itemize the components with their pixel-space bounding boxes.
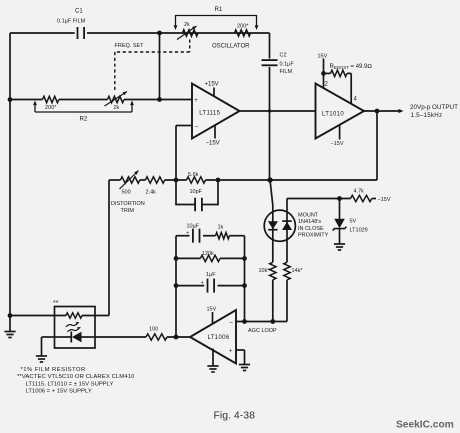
dual diode circle 1N4148	[264, 210, 295, 241]
node: pin2 / Rboost	[321, 71, 326, 76]
svg-text:C2: C2	[280, 53, 287, 59]
svg-text:+: +	[194, 98, 198, 104]
svg-text:1N4148’s: 1N4148’s	[298, 219, 321, 225]
svg-text:−15V: −15V	[331, 141, 344, 147]
label: R1	[215, 7, 223, 13]
svg-text:4.7k: 4.7k	[354, 189, 365, 195]
svg-text:AGC LOOP: AGC LOOP	[248, 328, 277, 334]
svg-text:R2: R2	[80, 117, 88, 123]
svg-text:120k: 120k	[202, 251, 214, 257]
svg-text:**: **	[53, 300, 59, 307]
svg-text:−: −	[195, 123, 199, 130]
svg-text:MOUNT: MOUNT	[298, 212, 319, 218]
label: AGC LOOP	[248, 328, 277, 334]
label: + (10uF)	[186, 230, 189, 236]
svg-text:2.4k: 2.4k	[146, 190, 157, 196]
svg-text:RBOOST = 49.9Ω: RBOOST = 49.9Ω	[330, 64, 373, 70]
svg-text:DISTORTION: DISTORTION	[111, 201, 145, 207]
wire: 2.4k to 5.6k node	[140, 179, 187, 181]
svg-text:1.5–15kHz: 1.5–15kHz	[411, 112, 443, 119]
wire: photoresistor row	[10, 315, 109, 317]
label: Rboost = 49.9 ohm	[330, 64, 373, 70]
svg-text:0.1µF FILM: 0.1µF FILM	[57, 19, 86, 25]
opto-coupler box VTL5C10	[55, 307, 96, 349]
label: 120k	[202, 251, 214, 257]
label: 20Vp-p OUTPUT	[410, 104, 458, 111]
svg-text:15V: 15V	[318, 54, 328, 60]
resistor 10k*	[270, 262, 276, 280]
ground: LED ground	[36, 356, 47, 362]
svg-text:+: +	[186, 230, 189, 236]
label: 5.6k	[188, 172, 199, 178]
watermark: SeekIC.com	[396, 419, 454, 430]
wire: LED left lead	[42, 337, 59, 356]
pin: LT1006 15V	[207, 307, 217, 325]
svg-text:1µF: 1µF	[206, 272, 216, 278]
light arrows	[66, 322, 81, 332]
wire: 1uF row	[176, 285, 245, 287]
svg-text:2k: 2k	[184, 22, 190, 28]
wire: LT1010 output	[364, 109, 404, 113]
resistor 5.6k	[187, 177, 206, 183]
pin: LT1115 V- -15V	[206, 125, 220, 147]
resistor 200* (R2 series)	[43, 96, 59, 102]
svg-text:LT1006: LT1006	[208, 335, 230, 341]
wire: left AGC vertical	[175, 236, 177, 337]
label: ** (box)	[53, 300, 59, 307]
pin: LT1115 V+ +15V	[205, 82, 219, 97]
resistor 1k	[216, 233, 230, 239]
svg-text:5.6k: 5.6k	[188, 172, 199, 178]
resistor 120k	[200, 255, 220, 261]
svg-text:TRIM: TRIM	[121, 208, 135, 214]
svg-text:0.1µF: 0.1µF	[280, 62, 295, 68]
label: DISTORTION TRIM	[111, 201, 145, 214]
capacitor 10uF	[193, 229, 200, 243]
label: C2 value	[280, 62, 295, 68]
svg-text:−: −	[229, 319, 233, 326]
node: 1uF right	[242, 283, 247, 288]
wire: feedback row right	[206, 179, 378, 181]
node: output node	[375, 109, 380, 114]
label: 10pF	[190, 189, 203, 195]
svg-text:15V: 15V	[207, 307, 217, 313]
wire: C2 branch lower (crosses output line)	[269, 67, 271, 180]
node: feedback / C2 / diode junction	[267, 177, 272, 182]
photoresistor element	[66, 313, 82, 318]
resistor 2.4k	[145, 177, 164, 183]
label: MOUNT 1N4148s note	[298, 212, 329, 238]
wire: 10k to AGC row	[272, 280, 274, 322]
bracket R1 with arrows	[174, 16, 259, 31]
zener diode LT1029 5V	[333, 219, 347, 231]
svg-text:−15V: −15V	[378, 197, 391, 203]
svg-text:Fig. 4-38: Fig. 4-38	[214, 410, 256, 422]
label: 200* (upper)	[237, 24, 249, 30]
wire: top Wien row left of C1	[10, 32, 75, 34]
op-amp U3 LT1006 (points left)	[190, 310, 236, 364]
op-amp U1 LT1115	[192, 84, 240, 139]
label: 10uF	[187, 223, 200, 229]
ground: zener ground	[334, 244, 345, 250]
svg-text:C1: C1	[75, 9, 83, 15]
caption: Fig. 4-38	[214, 410, 256, 422]
svg-text:LT1115: LT1115	[199, 110, 220, 116]
node: 1uF left	[174, 283, 179, 288]
pin: LT1010 15V supply	[318, 54, 328, 89]
label: 100	[149, 327, 158, 333]
svg-text:+: +	[201, 280, 204, 286]
resistor 100	[146, 334, 167, 340]
label: -15V supply	[378, 197, 391, 203]
wire: photoresistor to 500 pot	[108, 180, 110, 316]
wire: left ground rail	[9, 33, 11, 331]
svg-text:14k*: 14k*	[292, 268, 304, 274]
svg-text:IN CLOSE: IN CLOSE	[298, 226, 324, 232]
wire: top Wien row C1 to corner	[87, 32, 270, 34]
ground: left rail ground	[4, 332, 15, 338]
svg-text:FREQ. SET: FREQ. SET	[115, 43, 145, 49]
node: LT1115 inverting node	[174, 178, 179, 183]
label: 200* (R2)	[45, 105, 57, 111]
resistor 4.7k	[351, 195, 372, 201]
svg-text:SeekIC.com: SeekIC.com	[396, 419, 454, 430]
wire: distortion row lead	[109, 179, 120, 181]
wire: 14k to AGC row	[286, 280, 288, 322]
svg-text:LT1006 = + 15V SUPPLY: LT1006 = + 15V SUPPLY	[26, 389, 92, 395]
label: C2	[280, 53, 287, 59]
wire: LT1115 inverting input	[176, 126, 192, 181]
label: LT1029	[350, 228, 368, 234]
wire: zener row	[287, 198, 376, 200]
label: C1 value 0.1uF FILM	[57, 19, 86, 25]
svg-text:1k: 1k	[218, 224, 224, 230]
node: output / left vertical	[174, 335, 179, 340]
label: C2 FILM	[280, 69, 293, 75]
svg-text:+: +	[229, 349, 233, 355]
bracket R2 with arrows	[33, 101, 134, 113]
svg-text:OSCILLATOR: OSCILLATOR	[212, 44, 250, 50]
wire: AGC row (- input)	[236, 321, 287, 323]
svg-text:4: 4	[354, 97, 358, 103]
node: crossing blob at output line	[268, 109, 271, 112]
node: top row / freq-set tap	[157, 31, 162, 36]
wire: C2 branch upper	[269, 33, 271, 59]
label: 4.7k	[354, 189, 365, 195]
label: FREQ. SET	[115, 43, 145, 49]
resistor Rboost 49.9ohm	[324, 70, 352, 104]
node: zener tap	[337, 196, 342, 201]
potentiometer 2k (R2)	[105, 92, 128, 107]
note: supplies 1	[26, 381, 114, 387]
resistor 14k*	[284, 262, 290, 280]
node: 5.6k / 10pF right node	[216, 178, 221, 183]
wire: zener to ground	[339, 229, 341, 244]
pin 4 label	[354, 97, 358, 103]
capacitor C1 0.1uF film	[78, 27, 85, 39]
label: 1k	[218, 224, 224, 230]
wire: feedback vertical from LT1010 out	[376, 111, 378, 180]
potentiometer 2k (R1 upper)	[177, 26, 198, 40]
wire: 120k row	[176, 257, 245, 259]
node: AGC / right vertical	[242, 319, 247, 324]
wire: dashed freq-set gang link	[115, 40, 190, 93]
wire: LT1006 + input to ground	[236, 350, 250, 371]
wire: junction to diode circle	[270, 180, 273, 262]
svg-text:PROXIMITY: PROXIMITY	[298, 233, 329, 239]
potentiometer 500 distortion trim	[120, 171, 140, 190]
svg-text:R1: R1	[215, 7, 223, 13]
LED element	[58, 332, 97, 343]
capacitor 1uF	[208, 279, 215, 293]
diode D1 1N4148 (down)	[268, 221, 278, 230]
wire: R2 row	[10, 99, 192, 101]
wire: 10uF row	[176, 235, 245, 237]
label: 1.5-15kHz	[411, 112, 443, 119]
label: 14k*	[292, 268, 304, 274]
label: 2k (R2 pot)	[114, 105, 120, 111]
svg-text:10µF: 10µF	[187, 223, 200, 229]
wire: zener lead	[339, 199, 341, 219]
node: 120k left	[174, 256, 179, 261]
node: rail / R2 junction	[8, 97, 13, 102]
svg-text:200*: 200*	[237, 24, 249, 30]
svg-text:**VACTEC VTL5C10 OR CLAREX CLM: **VACTEC VTL5C10 OR CLAREX CLM410	[17, 374, 135, 380]
svg-text:+15V: +15V	[205, 82, 219, 88]
svg-text:200*: 200*	[45, 105, 57, 111]
label: OSCILLATOR	[212, 44, 250, 50]
label: 500	[122, 190, 131, 196]
pin: LT1006 V- to ground	[207, 349, 218, 373]
diode D2 1N4148 (up)	[282, 221, 292, 230]
svg-text:LT1029: LT1029	[350, 228, 368, 234]
wire: right diode branch	[286, 199, 288, 263]
node: 120k right	[242, 256, 247, 261]
label: 2k (upper pot)	[184, 22, 190, 28]
pin: LT1010 -15V	[331, 125, 344, 147]
svg-text:500: 500	[122, 190, 131, 196]
svg-text:10k*: 10k*	[259, 268, 271, 274]
node: rail / photoresistor junction	[8, 313, 13, 318]
label: 10k*	[259, 268, 271, 274]
svg-text:10pF: 10pF	[190, 189, 203, 195]
op-amp U2 LT1010 buffer	[316, 84, 365, 139]
label: R2	[80, 117, 88, 123]
node: AGC / 10k	[270, 319, 275, 324]
note: vactec	[17, 374, 135, 380]
label: 5V	[350, 219, 357, 225]
label: C1	[75, 9, 83, 15]
svg-text:100: 100	[149, 327, 158, 333]
svg-text:LT1115, LT1010 = ± 15V SUPPLY: LT1115, LT1010 = ± 15V SUPPLY	[26, 381, 114, 387]
note: 1% film resistor	[21, 367, 86, 373]
pin 2 label	[325, 82, 329, 88]
svg-text:−15V: −15V	[206, 141, 220, 147]
resistor 200* (R1 series)	[235, 30, 251, 36]
wire: LT1115 output to LT1010	[240, 110, 316, 112]
node: R2 row freq tap	[157, 97, 162, 102]
capacitor C2 0.1uF film	[262, 60, 278, 65]
wire: right AGC vertical	[244, 236, 246, 322]
label: 1uF	[206, 272, 216, 278]
svg-text:2k: 2k	[114, 105, 120, 111]
note: supplies 2	[26, 389, 92, 395]
svg-text:FILM: FILM	[280, 69, 293, 75]
svg-text:20Vp-p OUTPUT: 20Vp-p OUTPUT	[410, 104, 458, 111]
label: 2.4k	[146, 190, 157, 196]
wire: freq tap vertical	[159, 33, 161, 100]
svg-text:*1% FILM RESISTOR: *1% FILM RESISTOR	[21, 367, 86, 373]
capacitor 10pF loop	[176, 180, 218, 211]
label: + (1uF)	[201, 280, 204, 286]
wire: LT1006 output row	[97, 336, 191, 338]
svg-text:5V: 5V	[350, 219, 357, 225]
svg-text:LT1010: LT1010	[322, 111, 344, 117]
svg-text:2: 2	[325, 82, 329, 88]
